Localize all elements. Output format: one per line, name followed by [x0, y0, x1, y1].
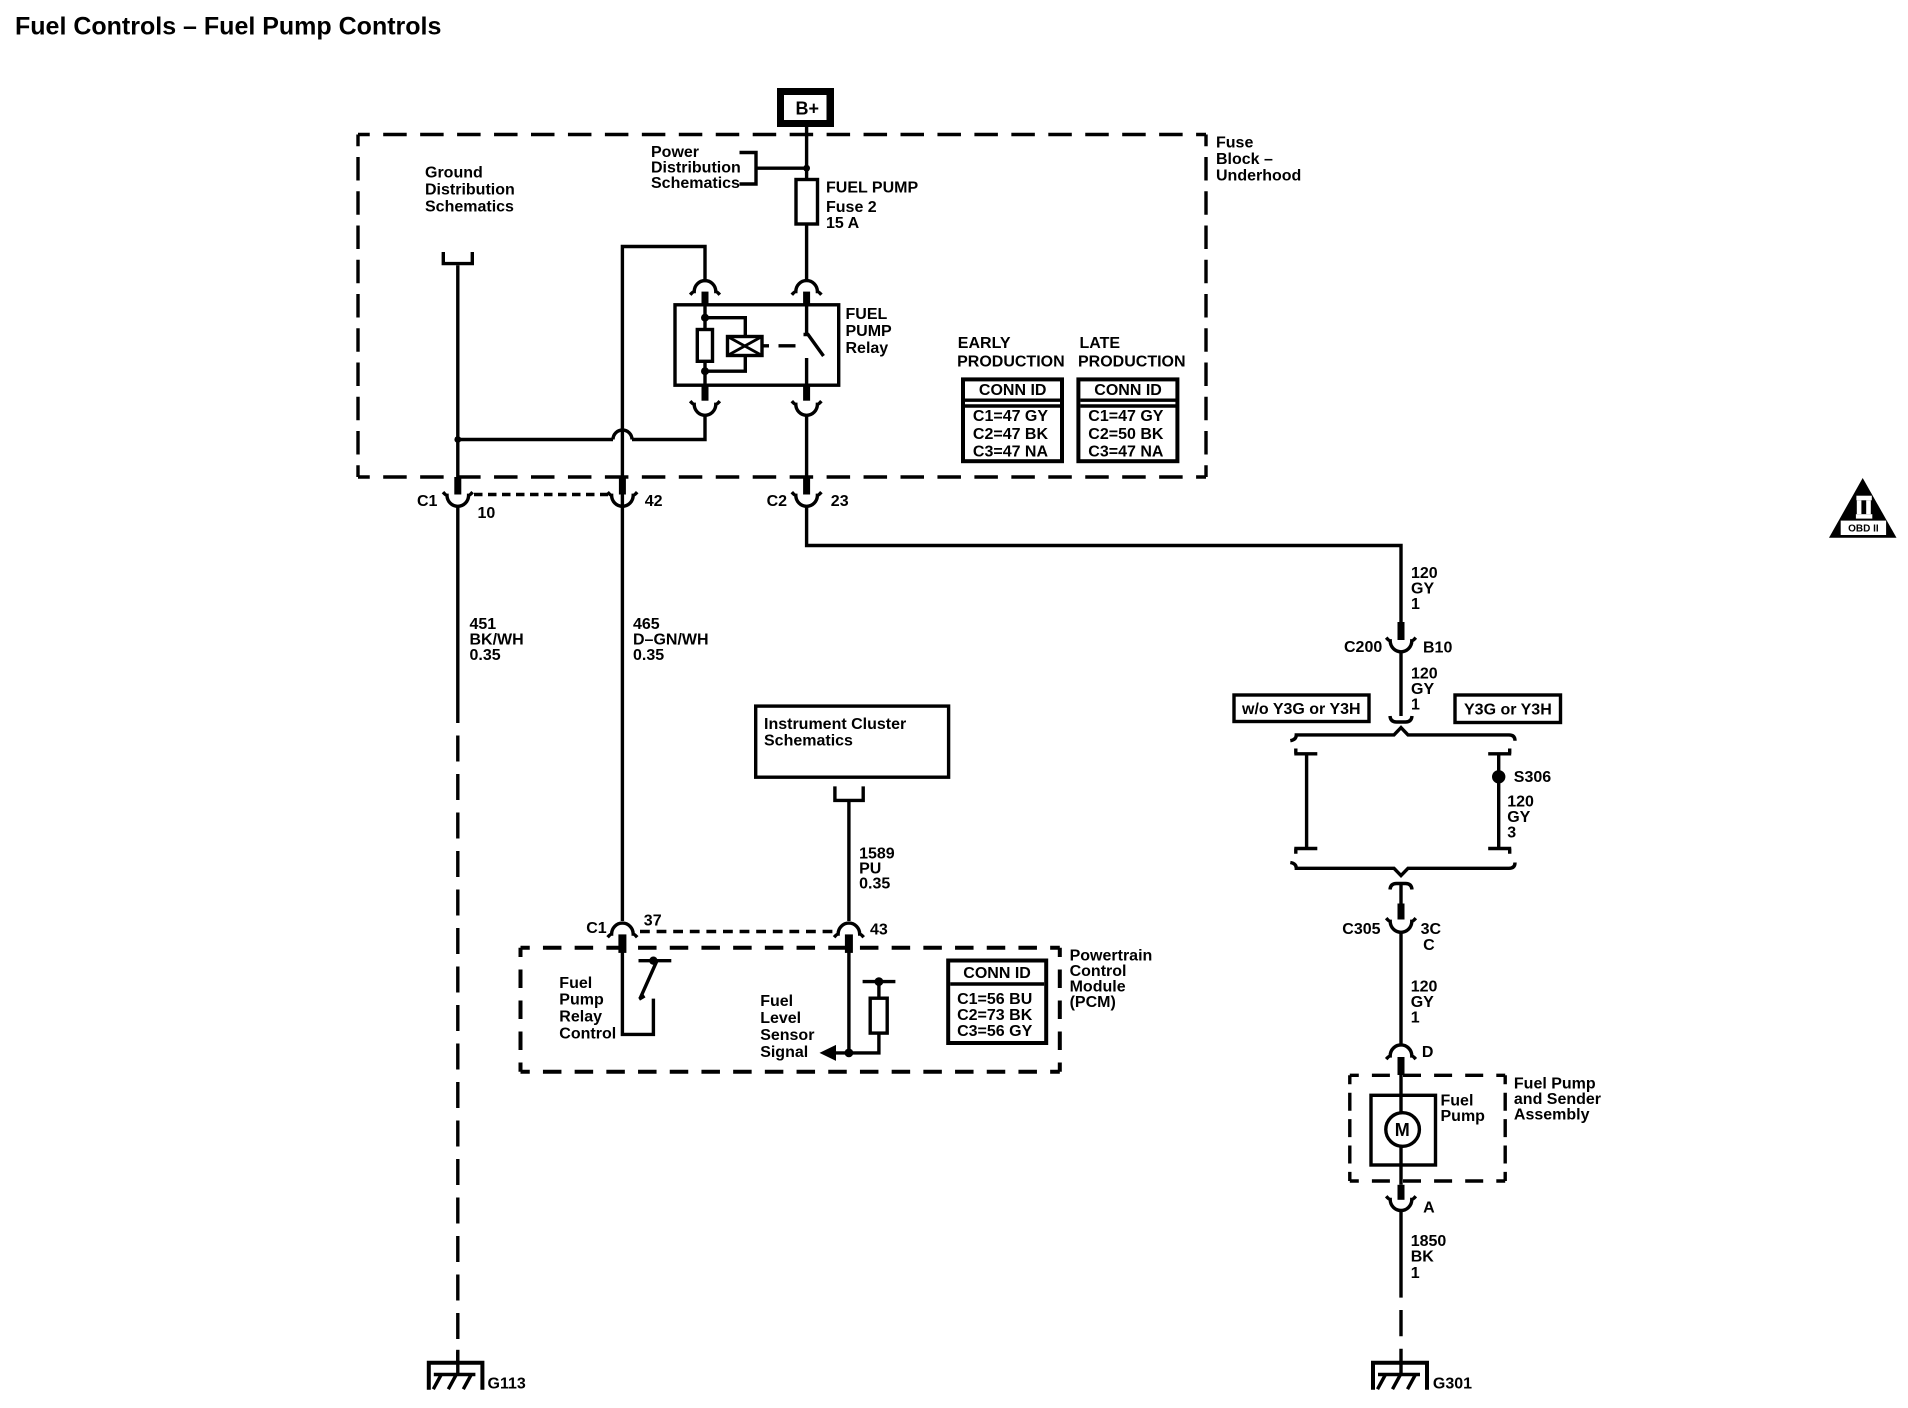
svg-text:120: 120	[1411, 666, 1438, 683]
svg-text:(PCM): (PCM)	[1070, 994, 1116, 1011]
wire pin 43 into PCM	[847, 949, 850, 1053]
svg-text:D–GN/WH: D–GN/WH	[633, 632, 709, 649]
relay coil resistor	[697, 330, 712, 362]
wire D to motor	[1399, 1075, 1402, 1114]
label 465 D-GN/WH 0.35	[633, 616, 709, 664]
ground G113	[429, 1363, 483, 1390]
svg-text:120: 120	[1411, 565, 1438, 582]
junction dot on B+ wire	[803, 165, 810, 172]
svg-text:Powertrain: Powertrain	[1070, 947, 1153, 964]
svg-text:FUEL PUMP: FUEL PUMP	[826, 180, 918, 197]
wire relay coil return to ground junction	[458, 415, 705, 439]
svg-text:FUEL: FUEL	[846, 306, 888, 323]
PCM connector pin 37 stub	[618, 934, 626, 953]
relay label	[846, 306, 893, 357]
relay top-right connector (switch pin)	[792, 281, 822, 305]
relay FUEL PUMP Relay box	[675, 305, 839, 385]
svg-text:Fuel: Fuel	[760, 993, 793, 1010]
PCM connector C1 arc pin 37	[608, 923, 638, 937]
wire loop from pin 42 to relay coil pin	[622, 247, 705, 509]
PCM CONN ID table	[948, 961, 1046, 1044]
relay coil winding box with X	[728, 337, 763, 356]
battery feed B+ box	[777, 88, 834, 127]
connector C200 B10 arc	[1386, 638, 1416, 652]
svg-text:Pump: Pump	[1441, 1108, 1486, 1125]
wire A to G301 solid part	[1399, 1211, 1402, 1297]
svg-text:Y3G or Y3H: Y3G or Y3H	[1464, 701, 1552, 718]
svg-text:C2=73 BK: C2=73 BK	[957, 1007, 1033, 1024]
svg-text:C1: C1	[586, 920, 607, 937]
right option wire (Y3G)	[1497, 754, 1500, 849]
ground G301	[1373, 1363, 1427, 1390]
svg-text:0.35: 0.35	[470, 647, 501, 664]
wire C305 to D	[1399, 933, 1402, 1046]
option split upper brace	[1290, 728, 1515, 741]
label fuel pump relay control	[559, 975, 616, 1042]
svg-text:C3=47 NA: C3=47 NA	[1088, 443, 1164, 460]
power distribution schematics label	[651, 144, 741, 192]
svg-text:37: 37	[644, 913, 662, 930]
wire C200 to option split	[1399, 653, 1402, 717]
svg-text:Control: Control	[1070, 963, 1127, 980]
fuse FUEL PUMP Fuse 2 15A	[796, 180, 818, 225]
relay bottom-right connector	[792, 385, 822, 415]
svg-text:LATE: LATE	[1080, 335, 1121, 352]
svg-text:Relay: Relay	[846, 340, 889, 357]
label powertrain control module PCM	[1070, 947, 1153, 1011]
connector C1 pin 10 stub	[454, 477, 461, 495]
ground distribution off-page cup	[443, 252, 472, 264]
svg-text:and Sender: and Sender	[1514, 1091, 1601, 1108]
svg-text:Signal: Signal	[760, 1044, 808, 1061]
label 451 BK/WH 0.35	[470, 616, 524, 664]
option box Y3G or Y3H	[1455, 695, 1561, 723]
svg-text:1: 1	[1411, 1009, 1420, 1026]
connector C2 pin 23 arc	[792, 492, 822, 506]
wire 1589 PU	[847, 800, 850, 921]
svg-text:C2=50 BK: C2=50 BK	[1088, 426, 1164, 443]
svg-text:C200: C200	[1344, 639, 1382, 656]
svg-text:Fuse 2: Fuse 2	[826, 199, 877, 216]
option split lower brace	[1290, 863, 1515, 876]
fuse block label	[1216, 135, 1301, 185]
svg-text:23: 23	[831, 493, 849, 510]
svg-text:1850: 1850	[1411, 1233, 1447, 1250]
svg-text:C1=56 BU: C1=56 BU	[957, 991, 1032, 1008]
svg-text:Distribution: Distribution	[651, 160, 741, 177]
svg-text:Fuel: Fuel	[559, 975, 592, 992]
svg-text:43: 43	[870, 922, 888, 939]
svg-text:Fuel: Fuel	[1441, 1093, 1474, 1110]
svg-text:G301: G301	[1433, 1376, 1472, 1393]
wire motor to A	[1399, 1146, 1402, 1185]
svg-text:CONN ID: CONN ID	[1094, 382, 1162, 399]
svg-text:10: 10	[478, 505, 496, 522]
svg-text:B+: B+	[796, 99, 820, 119]
svg-text:1: 1	[1411, 697, 1420, 714]
svg-text:BK: BK	[1411, 1249, 1435, 1266]
connector C305 arc	[1386, 918, 1416, 932]
svg-text:120: 120	[1507, 793, 1534, 810]
svg-text:GY: GY	[1507, 809, 1530, 826]
svg-text:CONN ID: CONN ID	[979, 382, 1047, 399]
left option bottom bracket cap	[1294, 849, 1317, 854]
connector A arc	[1386, 1196, 1416, 1210]
wire hop over pin-42 wire	[613, 430, 632, 440]
PCM connector dashed tie line 37-43	[640, 930, 835, 933]
svg-text:Power: Power	[651, 144, 699, 161]
left option top bracket cap	[1294, 749, 1317, 754]
label 1850 BK 1	[1411, 1233, 1447, 1282]
svg-text:15 A: 15 A	[826, 215, 860, 232]
svg-text:C305: C305	[1342, 921, 1380, 938]
svg-text:3C: 3C	[1421, 921, 1442, 938]
label 120 GY 1 upper	[1411, 565, 1438, 613]
svg-text:1: 1	[1411, 596, 1420, 613]
svg-text:Schematics: Schematics	[425, 198, 514, 215]
svg-text:PRODUCTION: PRODUCTION	[1078, 354, 1186, 371]
svg-text:120: 120	[1411, 978, 1438, 995]
svg-text:0.35: 0.35	[633, 647, 664, 664]
PCM fuel pump relay control driver switch	[622, 949, 671, 1034]
svg-text:Schematics: Schematics	[651, 175, 740, 192]
label EARLY PRODUCTION	[957, 335, 1065, 370]
svg-text:GY: GY	[1411, 581, 1434, 598]
svg-text:C3=56 GY: C3=56 GY	[957, 1023, 1032, 1040]
svg-text:465: 465	[633, 616, 660, 633]
svg-text:451: 451	[470, 616, 497, 633]
PCM connector pin 43 stub	[845, 934, 853, 953]
relay switch	[804, 305, 824, 385]
svg-text:S306: S306	[1514, 769, 1551, 786]
wire cup to ground junction	[456, 265, 459, 477]
early production CONN ID table	[963, 379, 1062, 461]
connector pin 42 arc	[608, 492, 638, 506]
svg-text:M: M	[1395, 1120, 1410, 1140]
svg-text:3: 3	[1507, 824, 1516, 841]
svg-text:Pump: Pump	[559, 992, 604, 1009]
label 1589 PU 0.35	[859, 846, 895, 893]
svg-text:CONN ID: CONN ID	[963, 965, 1031, 982]
wire 451 BK/WH dashed part	[456, 736, 459, 1362]
svg-text:Fuse: Fuse	[1216, 135, 1253, 152]
svg-text:Level: Level	[760, 1010, 801, 1027]
wire fuse to relay top-right connector	[805, 224, 808, 281]
option box w/o Y3G or Y3H	[1234, 695, 1369, 722]
svg-text:Assembly: Assembly	[1514, 1106, 1590, 1123]
svg-text:Relay: Relay	[559, 1009, 602, 1026]
connector A stub	[1398, 1185, 1405, 1200]
relay mechanical linkage dashes	[762, 344, 796, 347]
relay bottom-left connector	[690, 385, 720, 415]
svg-text:Block –: Block –	[1216, 151, 1273, 168]
svg-text:Schematics: Schematics	[764, 733, 853, 750]
junction dot ground distribution	[454, 436, 461, 443]
svg-text:Control: Control	[559, 1025, 616, 1042]
svg-text:Module: Module	[1070, 979, 1126, 996]
OBD II triangle	[1829, 478, 1897, 538]
wire relay switch output to C2	[805, 415, 808, 477]
instrument cluster schematics box	[756, 706, 949, 777]
svg-text:Ground: Ground	[425, 165, 483, 182]
powertrain control module dashed box	[521, 946, 1060, 950]
svg-text:PUMP: PUMP	[846, 323, 893, 340]
junction dot fuel level signal	[845, 1049, 854, 1058]
connector C200 B10 stub	[1398, 622, 1405, 640]
svg-text:42: 42	[645, 493, 663, 510]
wire option split to C305	[1399, 884, 1402, 904]
option split upper terminal bar	[1390, 716, 1412, 722]
label 120 GY 3	[1507, 793, 1534, 841]
svg-text:Fuel Pump: Fuel Pump	[1514, 1075, 1596, 1092]
relay coil circuit internals	[701, 305, 745, 385]
svg-text:OBD II: OBD II	[1848, 524, 1879, 535]
svg-text:C3=47 NA: C3=47 NA	[973, 443, 1049, 460]
PCM fuel level sensor pull-up resistor branch	[849, 977, 896, 1053]
connector dashed tie line C1-42	[474, 493, 608, 496]
svg-text:1: 1	[1411, 1265, 1420, 1282]
fuel pump and sender assembly dashed box	[1350, 1074, 1505, 1077]
fuse label	[826, 180, 918, 232]
connector C2 pin 23 stub	[803, 477, 810, 495]
connector D stub	[1398, 1057, 1405, 1075]
wire 451 BK/WH solid part	[456, 507, 459, 723]
wire A to G301 dashed part	[1399, 1310, 1402, 1375]
svg-text:C1: C1	[417, 493, 438, 510]
wire C2 to right branch	[807, 507, 1401, 622]
relay top-left connector (coil pin)	[690, 281, 720, 305]
label 120 GY 1 middle	[1411, 666, 1438, 714]
fuel pump motor M	[1386, 1113, 1420, 1147]
fuse block underhood dashed box	[358, 135, 1206, 478]
instrument cluster off-page cup	[835, 786, 863, 800]
fuel level signal arrow	[820, 1045, 849, 1061]
label fuel pump	[1441, 1093, 1486, 1126]
svg-text:EARLY: EARLY	[958, 335, 1011, 352]
late production CONN ID table	[1078, 379, 1177, 461]
label 120 GY 1 lower	[1411, 978, 1438, 1026]
connector pin 42 stub	[619, 477, 626, 495]
right option bottom bracket cap	[1488, 849, 1511, 854]
svg-text:BK/WH: BK/WH	[470, 632, 524, 649]
left option wire (w/o Y3G)	[1305, 754, 1308, 849]
svg-text:C2=47 BK: C2=47 BK	[973, 426, 1049, 443]
connector D arc	[1386, 1045, 1416, 1059]
fuel pump box	[1371, 1095, 1436, 1165]
wire 465 D-GN/WH	[621, 507, 624, 921]
svg-text:B10: B10	[1423, 640, 1452, 657]
svg-text:Distribution: Distribution	[425, 181, 515, 198]
svg-text:C1=47 GY: C1=47 GY	[1088, 408, 1163, 425]
svg-text:Instrument Cluster: Instrument Cluster	[764, 716, 906, 733]
svg-text:PRODUCTION: PRODUCTION	[957, 354, 1065, 371]
svg-text:C2: C2	[767, 493, 788, 510]
svg-text:w/o Y3G or Y3H: w/o Y3G or Y3H	[1241, 701, 1361, 718]
svg-text:C1=47 GY: C1=47 GY	[973, 408, 1048, 425]
ground distribution label	[425, 165, 515, 216]
svg-text:0.35: 0.35	[859, 876, 890, 893]
svg-text:GY: GY	[1411, 681, 1434, 698]
ground G113 wire stub	[456, 1350, 459, 1375]
svg-text:Underhood: Underhood	[1216, 168, 1301, 185]
svg-text:Fuel Controls – Fuel Pump Cont: Fuel Controls – Fuel Pump Controls	[15, 13, 441, 41]
wire B+ to fuse	[805, 127, 808, 180]
power distribution reference bracket	[740, 153, 807, 185]
svg-text:D: D	[1422, 1044, 1434, 1061]
splice S306 dot	[1492, 770, 1505, 783]
svg-text:C: C	[1423, 937, 1435, 954]
label fuel level sensor signal	[760, 993, 814, 1061]
svg-text:A: A	[1423, 1200, 1435, 1217]
connector C305 stub	[1398, 904, 1405, 920]
right option top bracket cap	[1488, 749, 1511, 754]
option split lower terminal bar	[1390, 884, 1412, 890]
PCM connector pin 43 arc	[834, 923, 864, 937]
connector C1 pin 10 arc	[443, 492, 473, 506]
svg-text:G113: G113	[488, 1376, 526, 1393]
label LATE PRODUCTION	[1078, 335, 1186, 370]
svg-text:GY: GY	[1411, 994, 1434, 1011]
svg-text:Sensor: Sensor	[760, 1027, 814, 1044]
label fuel pump and sender assembly	[1514, 1075, 1601, 1123]
